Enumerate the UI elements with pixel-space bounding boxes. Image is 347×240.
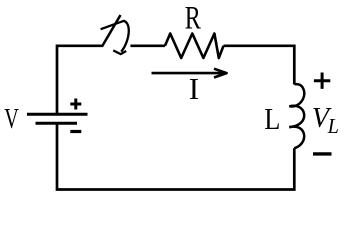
svg-text:L: L	[327, 116, 339, 139]
svg-text:V: V	[4, 104, 19, 135]
current I arrow shaft	[152, 72, 226, 75]
inductor L coil bump 2	[289, 106, 304, 127]
resistor R zigzag	[165, 34, 224, 59]
battery V1 bottom plate (-)	[36, 122, 78, 125]
inductor L coil bump 3	[289, 127, 304, 149]
switch SW1 lever (open blade)	[102, 15, 121, 47]
switch closing motion curved arrow	[101, 21, 129, 52]
inductor minus sign	[313, 152, 332, 155]
battery minus sign	[70, 130, 81, 133]
wire top-left segment and left vertical down to battery	[57, 46, 103, 114]
wire switch to resistor	[130, 44, 165, 47]
svg-text:I: I	[189, 71, 199, 106]
wire battery to bottom rail, bottom rail, up to inductor bottom	[57, 123, 294, 189]
battery V1 top plate (+)	[27, 113, 88, 116]
wire resistor right to top-right corner down to inductor top	[224, 46, 295, 85]
battery plus sign	[70, 99, 81, 110]
inductor L coil bump 1	[289, 84, 304, 106]
svg-text:R: R	[185, 0, 202, 36]
inductor plus sign	[314, 73, 330, 89]
svg-text:L: L	[264, 102, 280, 136]
switch arrow head	[113, 50, 126, 54]
current I arrow head	[214, 69, 227, 78]
